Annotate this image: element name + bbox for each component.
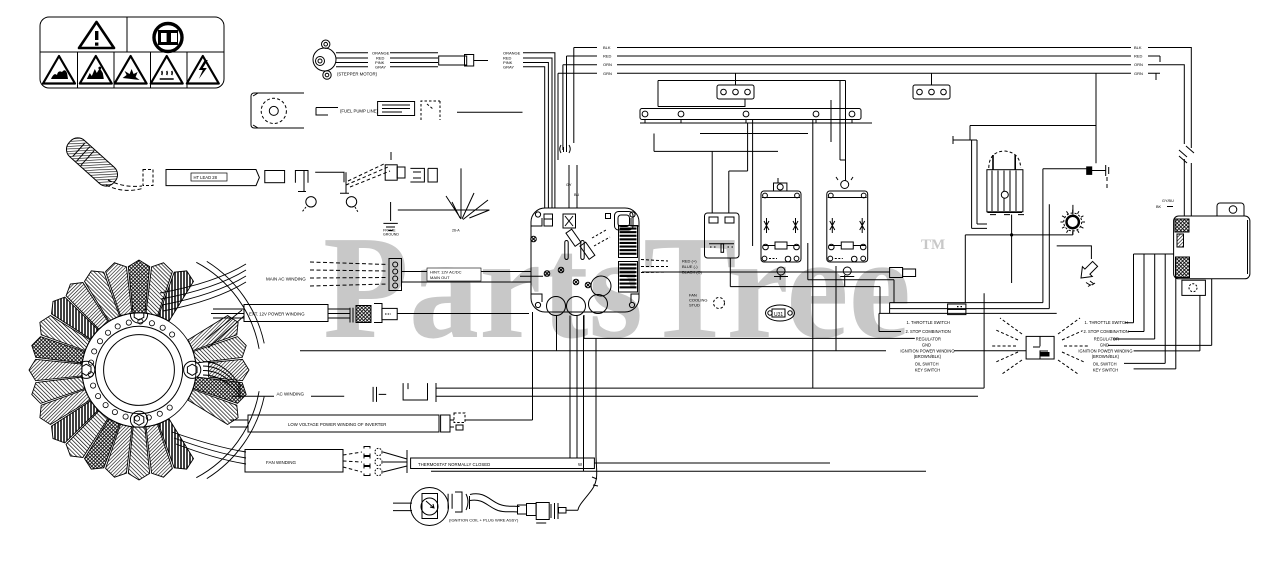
svg-text:GY: GY [566, 183, 572, 187]
lv tail connector [450, 413, 465, 430]
wire ecu drop 2 [1128, 254, 1144, 332]
svg-text:IGNITION POWER WINDING: IGNITION POWER WINDING [900, 348, 954, 353]
low voltage winding box [248, 415, 439, 432]
starter relay K1 [705, 213, 740, 258]
wire main out run [642, 271, 890, 273]
svg-text:OIL SWITCH: OIL SWITCH [1093, 361, 1117, 366]
svg-text:RED: RED [1134, 54, 1143, 59]
svg-text:(BROWN/BLK): (BROWN/BLK) [914, 354, 942, 359]
ignition control box ECU [1174, 203, 1250, 279]
ext winding label box [244, 305, 328, 322]
wire k2 left drop [752, 120, 754, 247]
wire regulator brackets [953, 136, 987, 228]
label switch list right [1084, 319, 1121, 325]
ecu connector mid [1177, 234, 1184, 247]
ecu connector top [1175, 219, 1189, 232]
svg-text:BLK: BLK [1134, 45, 1142, 50]
svg-text:AC WINDING: AC WINDING [277, 392, 305, 397]
wire k2k3 lower runs [730, 243, 894, 351]
stepper motor M1 [313, 40, 336, 79]
lv wires left [230, 420, 248, 427]
svg-text:(STEPPER MOTOR): (STEPPER MOTOR) [337, 72, 378, 77]
wire bus C [879, 293, 1057, 388]
svg-text:U31: U31 [774, 312, 783, 318]
clamp eyelet 2 [346, 197, 356, 207]
main winding dashed leads [310, 262, 388, 286]
wire ecu drop 4 [1124, 254, 1165, 363]
wires ext to plug [328, 309, 350, 318]
high tension tube [166, 170, 259, 186]
svg-text:GND: GND [922, 343, 931, 348]
wire stepper [336, 62, 368, 64]
starter rope [106, 180, 144, 190]
hazard triangle d [151, 56, 183, 84]
starter handle [62, 134, 121, 190]
inline connector [948, 304, 966, 315]
svg-text:ORN: ORN [1134, 62, 1143, 67]
wire solenoid bottom drops [780, 275, 845, 287]
wire ecu drop 1 [1125, 254, 1134, 323]
svg-text:(IGNITION COIL + PLUG WIRE ASS: (IGNITION COIL + PLUG WIRE ASSY) [449, 518, 519, 523]
wire fan lower run [431, 470, 926, 472]
warning triangle main [79, 22, 114, 48]
wire stepper [336, 52, 368, 54]
wire strip bus [640, 123, 872, 134]
ignition coil T1 [411, 488, 470, 526]
dashed lead bundle [346, 163, 390, 187]
read-manual circle icon [154, 24, 182, 52]
svg-text:PartsTree: PartsTree [323, 206, 911, 370]
wire pin link [1043, 168, 1087, 170]
wire regulator down [1011, 215, 1013, 283]
module tilt resistors [566, 229, 610, 259]
wire ecu drop 5 [1134, 278, 1176, 369]
wire ext to module [397, 313, 529, 315]
main winding connector [389, 259, 402, 291]
svg-text:REGULATOR: REGULATOR [916, 336, 941, 341]
svg-text:BK: BK [1156, 205, 1162, 209]
svg-text:TM: TM [921, 237, 945, 253]
svg-text:GND: GND [1100, 343, 1109, 348]
fan winding box [245, 450, 343, 473]
wire cn2 drop [658, 81, 846, 107]
svg-text:(BROWN/BLK): (BROWN/BLK) [1092, 354, 1120, 359]
warning label box [40, 17, 224, 88]
wire mid vertical bus [812, 120, 814, 389]
wire thermostat run [594, 462, 830, 464]
ground symbol frame [383, 202, 397, 231]
stator outer wire arcs [196, 261, 264, 478]
svg-text:GY/BU: GY/BU [1162, 199, 1174, 203]
module output dashes [641, 260, 668, 273]
wire harness top [457, 111, 523, 113]
svg-text:ORN: ORN [603, 62, 612, 67]
spark plug lead to harness [566, 338, 597, 510]
wire solenoid feeds [831, 81, 846, 181]
voltage regulator VR1 [987, 151, 1024, 215]
wire bus A [890, 303, 1043, 314]
svg-text:IGNITION POWER WINDING: IGNITION POWER WINDING [1078, 348, 1132, 353]
wire ecu drop 3 [1113, 254, 1155, 339]
svg-text:EXT. 12V POWER WINDING: EXT. 12V POWER WINDING [249, 312, 305, 317]
wire arrow branch [1057, 246, 1092, 259]
relay K3 bottom terminal [840, 267, 854, 277]
wire pump to harness [316, 108, 338, 116]
module fin block B [619, 262, 638, 293]
module top terminals [544, 214, 576, 228]
spark plug cable [470, 494, 520, 512]
hazard triangle c [115, 56, 147, 84]
wire stepper [336, 57, 368, 59]
wire key run [1134, 295, 1200, 351]
stator exit wires lower [172, 432, 246, 464]
svg-text:THERMOSTAT NORMALLY CLOSED: THERMOSTAT NORMALLY CLOSED [418, 462, 490, 467]
wire bus to grommet [965, 205, 1073, 303]
rope end cap [143, 170, 153, 186]
junction dashed leaders [992, 318, 1088, 374]
hazard triangle b [80, 56, 112, 84]
wire reg right verticals [1043, 169, 1049, 309]
svg-text:GROUND: GROUND [383, 233, 399, 237]
svg-text:GRN: GRN [603, 71, 612, 76]
fan dashed leads [343, 452, 362, 472]
ac bracket [403, 383, 427, 400]
ignition switch connector X1 [1026, 336, 1054, 359]
wire harness main run [558, 73, 1131, 160]
pin connector [1087, 165, 1109, 188]
relay K2 [761, 191, 801, 262]
fan merge [383, 450, 407, 473]
wire ground run [398, 209, 490, 211]
connector J1 [439, 55, 474, 67]
module screws [531, 236, 591, 288]
hazard triangle a [43, 56, 75, 84]
grommet [1060, 210, 1085, 235]
stator exit wires upper [160, 264, 246, 311]
splice marks [560, 145, 571, 153]
bracket connector [421, 101, 440, 120]
fuel shutoff solenoid box [378, 102, 415, 116]
wire ecu harness [1134, 253, 1174, 255]
svg-text:GRAY: GRAY [375, 64, 386, 69]
wire module bottom drops [557, 316, 584, 472]
svg-text:STUD: STUD [689, 303, 700, 308]
crimp funnel node [446, 168, 489, 219]
stator lamination holes [88, 319, 175, 421]
svg-text:KEY SWITCH: KEY SWITCH [1093, 367, 1118, 372]
wire harness main run [563, 65, 1131, 150]
lv end connector [441, 415, 450, 432]
svg-text:HINT: 12V AC/DC: HINT: 12V AC/DC [430, 270, 462, 275]
spark plug [536, 503, 566, 524]
terminal strip TB1 [640, 109, 861, 124]
svg-text:1. THROTTLE SWITCH: 1. THROTTLE SWITCH [1085, 320, 1128, 325]
svg-text:MAIN AC WINDING: MAIN AC WINDING [266, 277, 306, 282]
module wire terminal left [520, 275, 543, 277]
module aux socket [606, 212, 634, 231]
svg-text:BLK: BLK [603, 45, 611, 50]
wire ignition feed long [300, 315, 1026, 351]
label tube [191, 173, 227, 181]
thermostat box [411, 458, 595, 469]
svg-text:BU: BU [574, 193, 580, 197]
relay K2 bottom terminal [774, 267, 788, 277]
wire harness main run [567, 56, 1132, 150]
connector CN3 [913, 73, 950, 99]
label switch list left [906, 319, 943, 325]
svg-text:(FUEL PUMP LINE): (FUEL PUMP LINE) [340, 109, 379, 114]
tube connector [265, 171, 285, 183]
stator exit wires middle [203, 309, 244, 398]
connector main out [890, 268, 916, 278]
module fin block A [619, 226, 638, 258]
fan bullet connectors [364, 447, 382, 476]
wire reg top feed [970, 126, 1096, 141]
label ac winding [232, 395, 344, 397]
svg-text:RED: RED [603, 54, 612, 59]
relay K2 top terminal [774, 178, 787, 191]
module slots [565, 241, 584, 260]
ac connector bars [373, 387, 386, 402]
fuse U31 [766, 305, 795, 321]
svg-text:REGULATOR: REGULATOR [1094, 336, 1119, 341]
wire stepper [336, 66, 368, 68]
wire to module top [569, 165, 577, 208]
stator winding coils [29, 260, 249, 480]
svg-text:RED (+): RED (+) [682, 259, 697, 264]
control module U1 [531, 208, 639, 312]
lead connector [385, 152, 405, 180]
clamp bracket 2 [315, 172, 349, 193]
plug boot [518, 504, 537, 516]
svg-text:26-A: 26-A [452, 229, 460, 233]
wire main to module [402, 272, 532, 283]
clamp bracket 1 [295, 171, 308, 192]
stator mounting bosses [78, 306, 201, 428]
relay K3 top terminal [836, 177, 853, 189]
wire bus B [890, 308, 1050, 310]
svg-text:GRN: GRN [1134, 71, 1143, 76]
connector CN2 [717, 73, 754, 99]
fuel pump P1 [251, 93, 304, 128]
svg-text:GRAY: GRAY [503, 64, 514, 69]
clamp eyelet 1 [306, 197, 316, 207]
wire drop to regulator pin [1095, 73, 1097, 163]
wire harness main run [574, 48, 1131, 144]
ac line end cap [435, 383, 437, 402]
wire ac pair long [436, 388, 984, 396]
plug pair [410, 168, 437, 182]
hazard triangle e [187, 56, 219, 84]
svg-text:LOW VOLTAGE POWER WINDING OF I: LOW VOLTAGE POWER WINDING OF INVERTER [288, 422, 386, 427]
wire gnd run [1108, 279, 1212, 346]
svg-text:2. STOP COMBINATION: 2. STOP COMBINATION [1084, 329, 1129, 334]
relay K3 [827, 191, 868, 262]
svg-text:2. STOP COMBINATION: 2. STOP COMBINATION [906, 329, 951, 334]
svg-text:KEY SWITCH: KEY SWITCH [915, 367, 940, 372]
ecu connector bottom [1176, 257, 1190, 278]
wire coil stubs [393, 503, 412, 511]
svg-text:MAIN OUT: MAIN OUT [430, 275, 450, 280]
svg-text:HT LEAD 28: HT LEAD 28 [194, 175, 218, 180]
svg-text:OIL SWITCH: OIL SWITCH [915, 361, 939, 366]
ecu bottom terminal [1182, 280, 1206, 295]
wire lv up to module [465, 312, 533, 420]
module relay sockets [547, 276, 612, 316]
svg-text:FAN WINDING: FAN WINDING [266, 460, 296, 465]
direction arrow [1081, 261, 1098, 278]
wire right drop to ECU [1148, 48, 1160, 74]
stator assembly [82, 313, 196, 427]
svg-text:BLUE (-): BLUE (-) [682, 264, 698, 269]
ext plug [350, 304, 397, 323]
svg-text:1. THROTTLE SWITCH: 1. THROTTLE SWITCH [907, 320, 950, 325]
label main lead [427, 268, 481, 281]
wire relay feeds [654, 123, 778, 213]
